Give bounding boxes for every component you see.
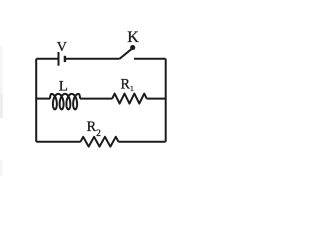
wire top-left segment (36, 58, 58, 60)
resistor R2 zigzag (81, 137, 119, 147)
wire middle-left segment (36, 98, 50, 100)
wire middle segment between L and R1 (80, 98, 112, 100)
wire top-middle segment (65, 58, 120, 60)
wire right vertical (165, 59, 167, 142)
wire bottom-right segment (118, 141, 165, 143)
scan smudge left edge lower (0, 160, 2, 176)
inductor L coil (50, 94, 80, 110)
svg-text:R1: R1 (121, 76, 134, 93)
scan smudge left edge middle (0, 94, 3, 118)
wire top-right segment (134, 58, 166, 60)
wire middle-right segment (147, 98, 166, 100)
switch K contact dot (130, 45, 135, 50)
svg-text:L: L (59, 79, 68, 95)
wire bottom-left segment (36, 141, 80, 143)
switch K arm (119, 49, 131, 59)
svg-text:V: V (57, 40, 67, 55)
battery V short plate (64, 56, 66, 62)
svg-text:K: K (127, 29, 139, 46)
wire left vertical (35, 59, 37, 142)
scan smudge left edge upper (0, 46, 2, 98)
resistor R1 zigzag (112, 94, 147, 104)
battery V long plate (58, 52, 60, 66)
